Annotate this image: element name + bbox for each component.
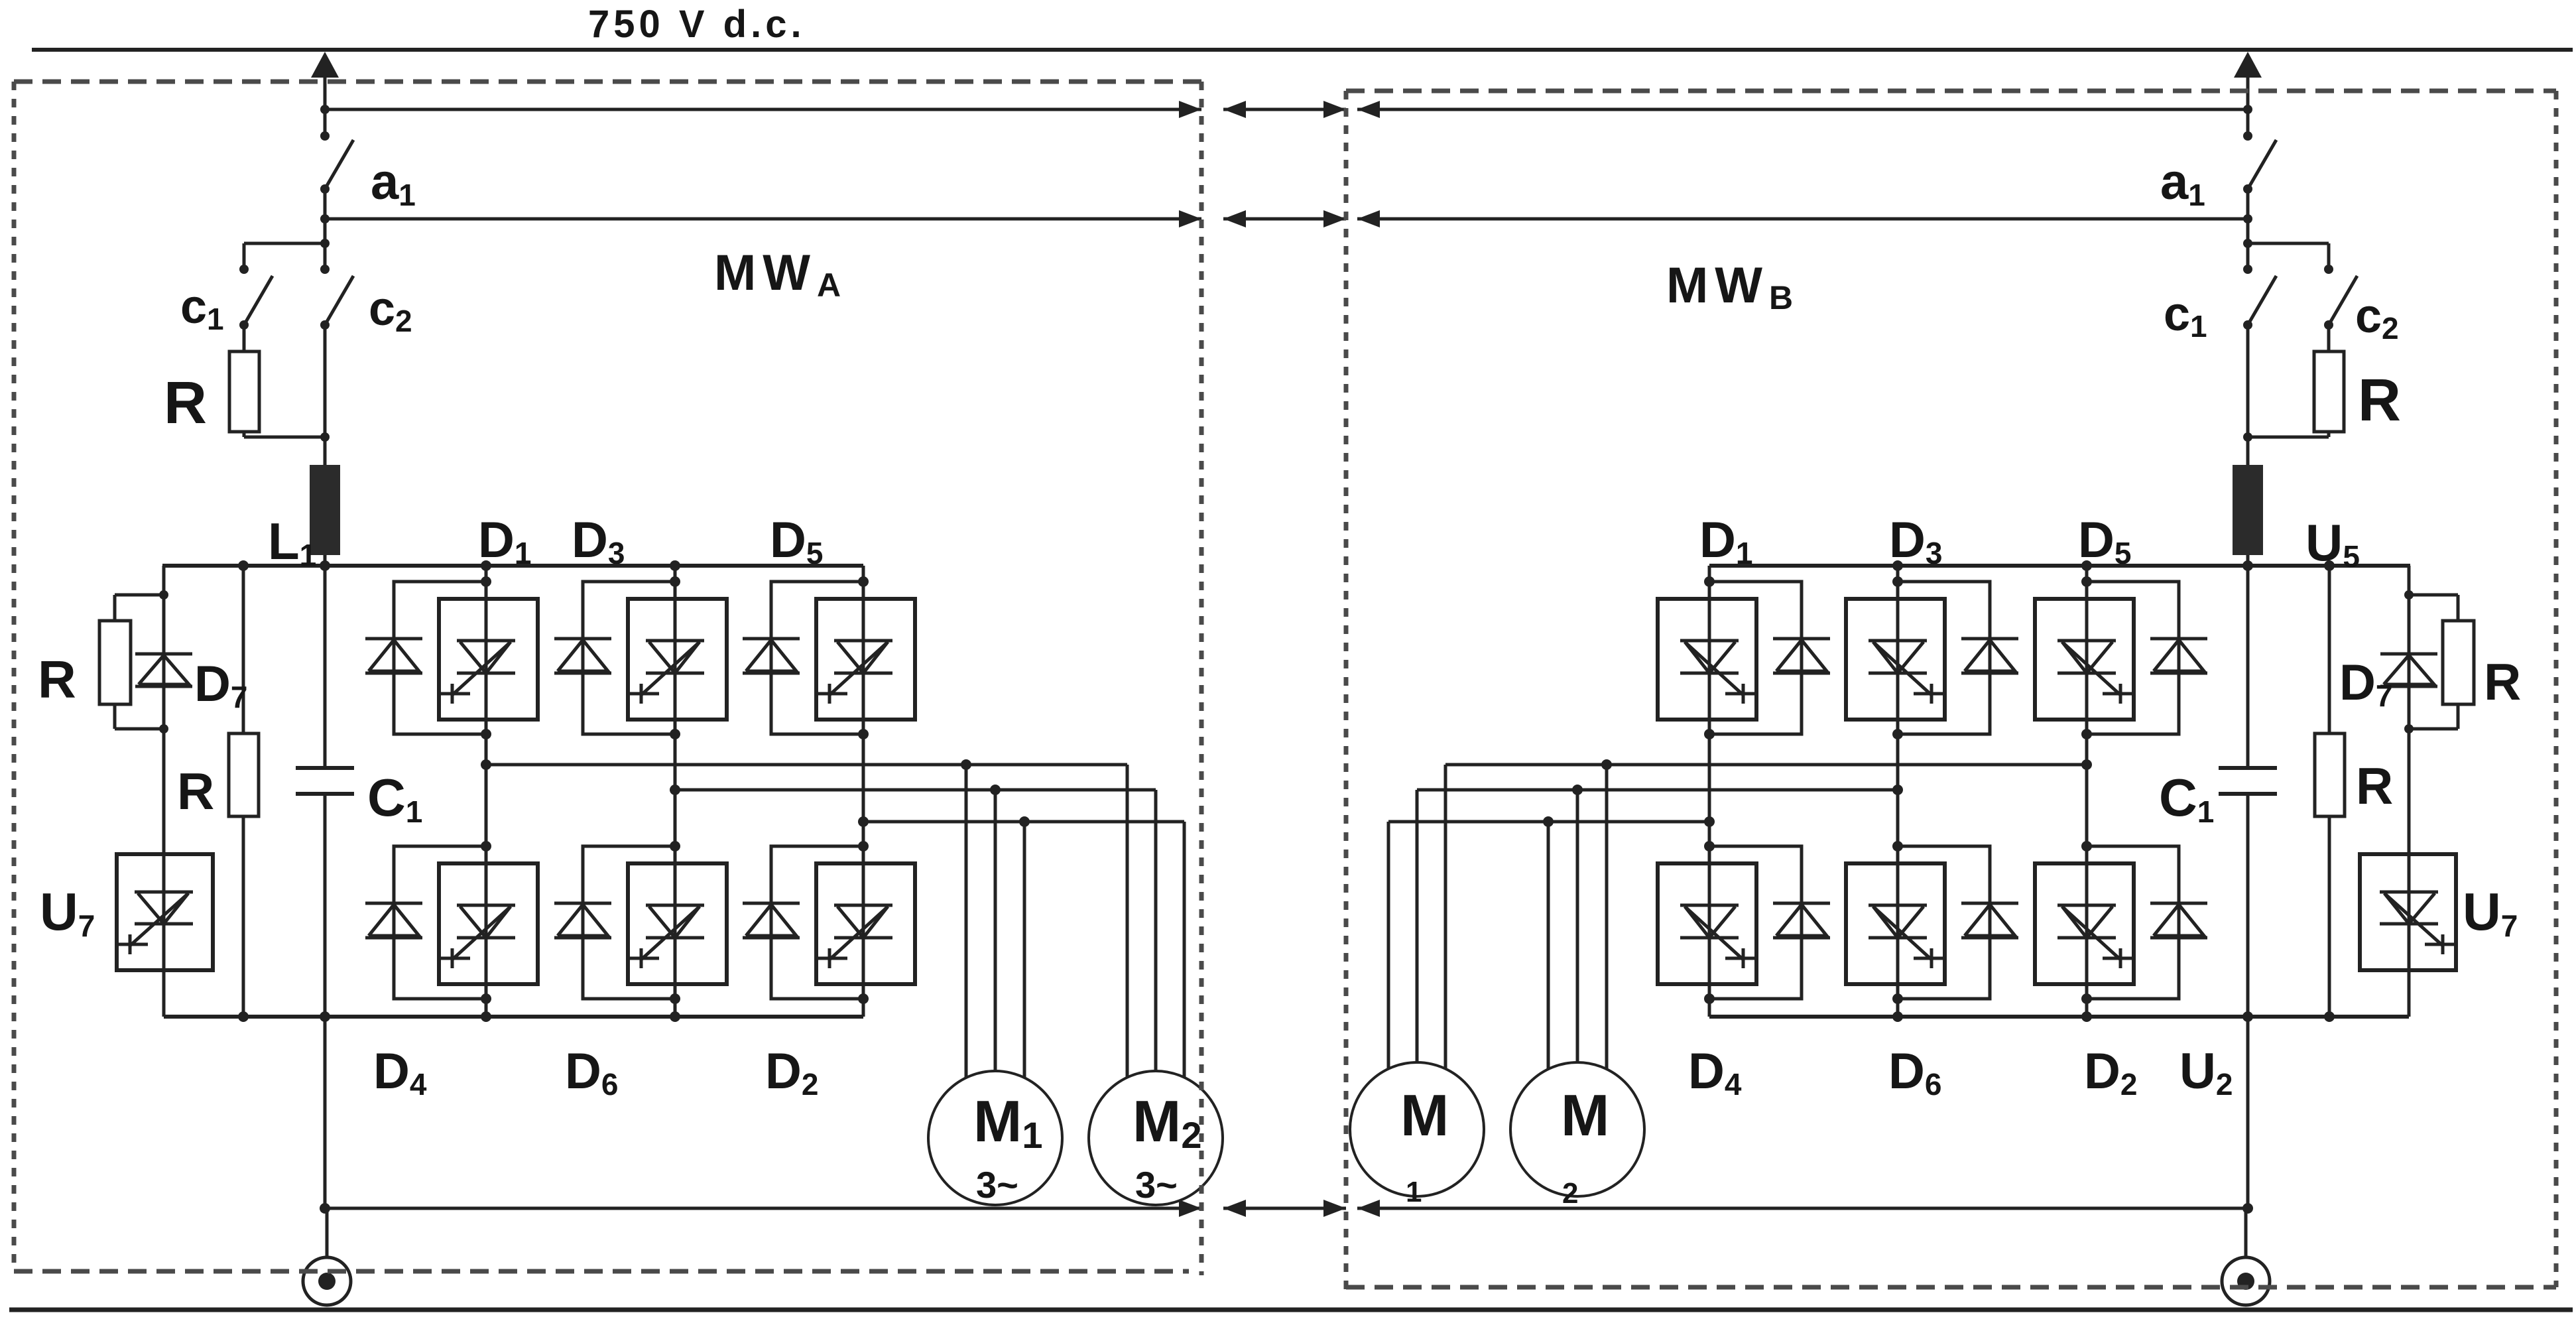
svg-text:R: R [177, 762, 214, 820]
svg-text:M: M [1561, 1082, 1609, 1148]
svg-text:R: R [164, 370, 207, 436]
svg-text:3~: 3~ [976, 1164, 1018, 1206]
svg-text:1: 1 [1406, 1176, 1422, 1208]
svg-text:R: R [2358, 367, 2401, 434]
svg-text:R: R [2484, 653, 2521, 711]
svg-text:2: 2 [1562, 1177, 1578, 1210]
svg-text:R: R [38, 650, 76, 709]
svg-text:R: R [2356, 757, 2393, 815]
svg-text:M: M [1400, 1082, 1449, 1148]
svg-text:3~: 3~ [1135, 1164, 1178, 1206]
svg-text:750 V d.c.: 750 V d.c. [588, 3, 806, 46]
